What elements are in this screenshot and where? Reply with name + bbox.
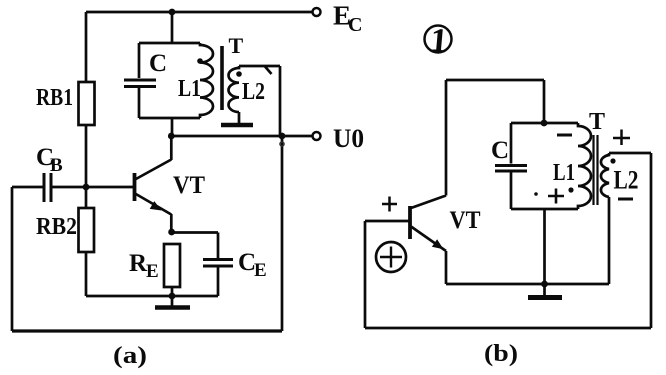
svg-text:RB2: RB2	[36, 214, 77, 240]
svg-text:C: C	[348, 14, 362, 36]
svg-text:B: B	[50, 155, 63, 176]
svg-text:L1: L1	[178, 76, 201, 102]
svg-text:E: E	[146, 261, 159, 282]
svg-text:VT: VT	[173, 172, 205, 199]
svg-text:C: C	[149, 50, 167, 77]
svg-text:U0: U0	[333, 124, 364, 153]
svg-text:L2: L2	[614, 166, 639, 195]
svg-text:C: C	[491, 137, 509, 164]
svg-text:L2: L2	[242, 79, 265, 105]
svg-text:(a): (a)	[113, 343, 147, 369]
svg-text:E: E	[254, 260, 267, 281]
svg-text:L1: L1	[553, 160, 575, 186]
svg-text:T: T	[229, 33, 244, 58]
svg-text:T: T	[589, 109, 605, 135]
svg-text:VT: VT	[450, 207, 481, 234]
svg-text:(b): (b)	[484, 341, 518, 367]
svg-text:RB1: RB1	[36, 85, 73, 111]
svg-text:1: 1	[429, 22, 449, 60]
